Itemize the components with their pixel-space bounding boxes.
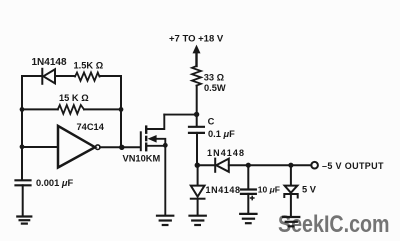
wire: C1 to ground (22, 185, 24, 216)
op-amp U1 74C14 inverter (58, 126, 95, 168)
node dot left rail / input (20, 144, 25, 149)
diode D1 1N4148 (top left) (42, 69, 55, 84)
ground (under D4) (283, 217, 299, 226)
channel segments (145, 127, 147, 151)
wire: D4 to ground (290, 194, 292, 216)
svg-text:33 Ω: 33 Ω (204, 73, 225, 83)
wire: 15K row (22, 108, 121, 110)
svg-text:–5 V OUTPUT: –5 V OUTPUT (322, 161, 384, 171)
ground (left, under C1) (17, 217, 31, 224)
svg-text:74C14: 74C14 (77, 122, 105, 132)
diode D2 1N4148 (horizontal) (215, 159, 229, 172)
svg-text:SeekIC.com: SeekIC.com (278, 210, 390, 237)
resistor R1 1.5K (75, 73, 100, 81)
resistor R2 15K (58, 105, 84, 114)
drain top wire (164, 114, 196, 116)
wire: node A to D2 (197, 164, 214, 166)
svg-text:VN10KM: VN10KM (123, 154, 161, 164)
svg-text:1.5K Ω: 1.5K Ω (74, 61, 104, 71)
svg-text:10 μF: 10 μF (258, 185, 280, 195)
ground (under Q1 source) (157, 216, 173, 225)
svg-text:0.5W: 0.5W (204, 83, 226, 93)
svg-text:5 V: 5 V (302, 185, 317, 195)
svg-text:0.001 μF: 0.001 μF (36, 178, 73, 188)
wire: C2 to node A (196, 133, 198, 165)
inversion bubble (95, 145, 100, 150)
node dot left rail / 15K (20, 107, 25, 112)
svg-text:1N4148: 1N4148 (32, 57, 67, 68)
C3 polarity plus sign (250, 196, 255, 201)
wire: top feedback rail (22, 75, 121, 77)
svg-text:1N4148: 1N4148 (206, 185, 241, 195)
wire: D2 to output (229, 164, 311, 166)
transistor Q1 VN10KM (141, 115, 197, 216)
node A dot (C2/D2/D3) (195, 163, 200, 168)
gate bar (140, 132, 142, 150)
wire: D3 to ground (197, 199, 199, 215)
capacitor C2 0.1uF (189, 127, 204, 133)
wire: right feedback rail (120, 76, 122, 147)
supply arrow head (193, 45, 201, 54)
wire: inverter output to gate (100, 146, 140, 148)
zener D4 5V (290, 165, 292, 185)
wire: inverter input (22, 146, 58, 148)
body arrow head (148, 135, 157, 143)
body arrow stub (156, 139, 166, 146)
svg-text:C: C (208, 117, 215, 127)
supply arrow (195, 51, 197, 66)
node dot drain / supply rail (194, 112, 199, 117)
diode D3 1N4148 (vertical) (197, 165, 199, 185)
resistor R3 33 ohm (vertical) (192, 66, 201, 86)
node dot zener top (288, 163, 293, 168)
ground (under D3) (190, 216, 206, 225)
node dot output / feedback (119, 145, 124, 150)
source stub (147, 145, 165, 147)
svg-text:0.1 μF: 0.1 μF (208, 129, 235, 139)
wire: left rail (21, 76, 23, 180)
wire: R3 to C2 (196, 86, 198, 126)
ground (under C3) (240, 214, 256, 223)
capacitor C3 10uF (247, 165, 249, 189)
node dot C3 top (246, 163, 251, 168)
node: source junction (163, 143, 168, 148)
svg-text:+7 TO +18 V: +7 TO +18 V (169, 33, 224, 44)
capacitor C1 0.001uF (16, 180, 31, 185)
output terminal circle (311, 162, 318, 169)
drain stub (147, 115, 164, 129)
source down wire (164, 146, 166, 216)
wire: C3 to ground (247, 194, 249, 213)
svg-text:15 K Ω: 15 K Ω (59, 93, 89, 103)
svg-text:1N4148: 1N4148 (207, 148, 245, 158)
node dot right rail / 15K (119, 107, 124, 112)
